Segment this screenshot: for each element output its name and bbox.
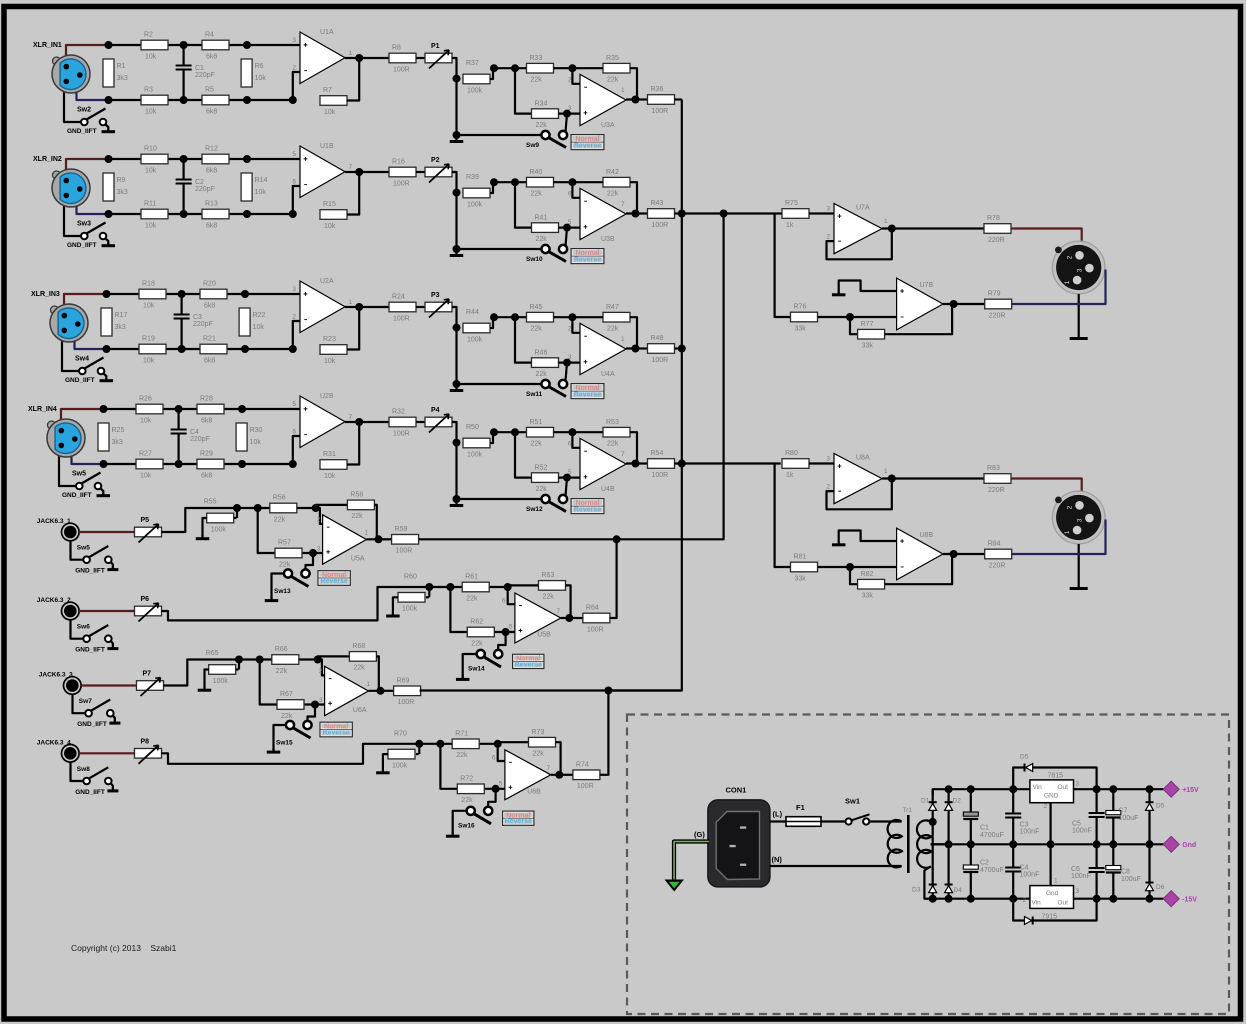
svg-text:1: 1 bbox=[1064, 530, 1071, 534]
svg-text:220pF: 220pF bbox=[190, 436, 210, 443]
svg-text:3k3: 3k3 bbox=[115, 324, 126, 331]
svg-text:6k8: 6k8 bbox=[201, 472, 212, 479]
svg-text:6: 6 bbox=[292, 429, 296, 436]
resistor R24 bbox=[389, 294, 416, 323]
svg-text:100R: 100R bbox=[393, 180, 410, 187]
svg-text:GND_IIFT: GND_IIFT bbox=[75, 568, 105, 575]
svg-text:R1: R1 bbox=[117, 63, 126, 70]
wire output to 100R bbox=[636, 347, 648, 349]
svg-text:(G): (G) bbox=[694, 830, 705, 839]
svg-text:R37: R37 bbox=[466, 60, 479, 67]
svg-text:220R: 220R bbox=[988, 487, 1005, 494]
wire to buffer +input bbox=[809, 212, 834, 214]
op-amp U8A bbox=[826, 454, 888, 504]
svg-text:U2A: U2A bbox=[320, 278, 334, 285]
op-amp U7A bbox=[826, 204, 888, 254]
resistor R18 bbox=[139, 281, 166, 310]
capacitor C7 bbox=[1106, 789, 1139, 844]
wire jack to pot bbox=[79, 752, 134, 754]
jack input connector JACK6.3_2 bbox=[37, 597, 79, 620]
svg-text:C1: C1 bbox=[195, 65, 204, 72]
wire +input node down to phase switch bbox=[306, 553, 314, 570]
resistor R47 bbox=[603, 304, 630, 333]
wire maroon from XLR pin to top rail bbox=[66, 159, 109, 171]
jack input connector JACK6.3_1 bbox=[37, 518, 79, 541]
svg-text:100k: 100k bbox=[211, 526, 227, 533]
wire divider down to switch line bbox=[455, 79, 457, 135]
wire maroon to XLR pin 2 bbox=[1012, 479, 1082, 493]
svg-text:5: 5 bbox=[568, 469, 572, 476]
svg-text:R39: R39 bbox=[466, 174, 479, 181]
svg-text:R11: R11 bbox=[144, 201, 156, 208]
svg-text:22k: 22k bbox=[531, 326, 543, 333]
svg-text:2: 2 bbox=[292, 65, 296, 72]
svg-text:1: 1 bbox=[884, 468, 888, 475]
node C junction top bbox=[178, 290, 186, 298]
svg-text:3k3: 3k3 bbox=[112, 439, 123, 446]
svg-text:Sw14: Sw14 bbox=[468, 666, 485, 673]
wire jack to pot bbox=[79, 610, 134, 612]
svg-text:U8B: U8B bbox=[920, 532, 934, 539]
svg-text:+15V: +15V bbox=[1182, 787, 1199, 794]
wire down to lower 22k bbox=[515, 68, 532, 113]
ground bbox=[1070, 544, 1088, 589]
svg-text:R2: R2 bbox=[144, 32, 153, 39]
svg-text:Sw15: Sw15 bbox=[276, 740, 293, 747]
wire buffer feedback bbox=[827, 479, 892, 510]
resistor R83 bbox=[984, 465, 1011, 494]
svg-text:U4B: U4B bbox=[601, 486, 615, 493]
ground bbox=[100, 378, 114, 381]
svg-text:22k: 22k bbox=[607, 326, 619, 333]
svg-text:R72: R72 bbox=[460, 776, 473, 783]
resistor R79 bbox=[985, 291, 1012, 320]
Normal/Reverse label box bbox=[571, 134, 605, 150]
resistor R74 bbox=[573, 762, 600, 791]
capacitor C6 bbox=[1071, 844, 1105, 898]
svg-text:1: 1 bbox=[366, 681, 370, 688]
node bus B top bbox=[720, 210, 728, 218]
transformer Tr1 bbox=[888, 807, 932, 873]
regulator U 7915 bbox=[1023, 878, 1080, 921]
svg-text:10k: 10k bbox=[324, 109, 336, 116]
svg-text:JACK6.3_3: JACK6.3_3 bbox=[39, 672, 73, 679]
op-amp U3A bbox=[568, 74, 626, 129]
svg-text:D5: D5 bbox=[1020, 754, 1029, 761]
node output bbox=[565, 614, 573, 622]
resistor R43 bbox=[648, 200, 675, 229]
Normal/Reverse label box bbox=[571, 383, 605, 399]
ground bbox=[832, 542, 846, 545]
wire node segment bbox=[494, 431, 527, 433]
svg-text:R7: R7 bbox=[323, 87, 332, 94]
wire jack sleeve to switch bbox=[71, 541, 84, 560]
wire to feedback 22k bbox=[316, 505, 348, 508]
svg-text:33k: 33k bbox=[795, 325, 807, 332]
wire inverter +input to ground bbox=[839, 281, 897, 293]
resistor R71 bbox=[452, 731, 479, 760]
node first stage output bbox=[355, 168, 363, 176]
wire lower 22k to +input bbox=[305, 703, 325, 705]
svg-text:R67: R67 bbox=[280, 691, 293, 698]
wire down to lower 22k bbox=[515, 317, 532, 362]
svg-text:GND_IIFT: GND_IIFT bbox=[62, 492, 92, 499]
svg-text:CON1: CON1 bbox=[726, 786, 747, 795]
svg-text:10k: 10k bbox=[140, 417, 152, 424]
wire top rail bbox=[109, 44, 301, 46]
jack input connector JACK6.3_4 bbox=[37, 739, 79, 762]
resistor R36 bbox=[648, 86, 675, 115]
svg-text:P8: P8 bbox=[141, 738, 150, 745]
wire 22k to -input jog bbox=[299, 660, 324, 676]
svg-text:R21: R21 bbox=[203, 336, 216, 343]
svg-text:R3: R3 bbox=[144, 87, 153, 94]
regulator U 7815 bbox=[1030, 773, 1080, 811]
svg-text:D1: D1 bbox=[921, 798, 930, 805]
op-amp U5A bbox=[317, 515, 369, 564]
svg-text:10k: 10k bbox=[145, 108, 157, 115]
resistor R58 bbox=[347, 492, 374, 521]
Normal/Reverse label box bbox=[317, 570, 351, 586]
svg-text:Reverse: Reverse bbox=[574, 392, 601, 399]
svg-text:JACK6.3_2: JACK6.3_2 bbox=[37, 597, 71, 604]
wire D6 protection loop bbox=[1013, 899, 1096, 921]
node jack2 join bbox=[613, 535, 621, 543]
svg-text:10k: 10k bbox=[145, 167, 157, 174]
svg-text:R29: R29 bbox=[200, 451, 213, 458]
svg-text:R8: R8 bbox=[392, 45, 401, 52]
svg-text:U3B: U3B bbox=[601, 236, 615, 243]
resistor R27 bbox=[136, 451, 163, 480]
wire 100k to line bbox=[234, 517, 237, 519]
wire branch down to lower 22k bbox=[440, 744, 457, 789]
wire feedback from output bbox=[347, 172, 359, 215]
svg-text:10k: 10k bbox=[324, 473, 336, 480]
resistor R30 bbox=[236, 423, 262, 451]
node divider bbox=[453, 189, 461, 197]
svg-text:Tr1: Tr1 bbox=[903, 807, 913, 814]
svg-text:GND: GND bbox=[1044, 793, 1059, 800]
capacitor C4 bbox=[1005, 844, 1039, 898]
wire transformer bottom to N bbox=[770, 865, 902, 867]
node second stage output bbox=[632, 96, 640, 104]
resistor R59 bbox=[392, 526, 419, 555]
svg-text:22k: 22k bbox=[276, 668, 288, 675]
svg-text:6: 6 bbox=[568, 441, 572, 448]
svg-text:22k: 22k bbox=[607, 77, 619, 84]
wire -input node bbox=[818, 316, 897, 318]
svg-text:R24: R24 bbox=[392, 294, 405, 301]
svg-text:10k: 10k bbox=[324, 223, 336, 230]
potentiometer P6 bbox=[135, 596, 162, 622]
svg-text:3: 3 bbox=[317, 546, 321, 553]
svg-text:R57: R57 bbox=[278, 540, 291, 547]
svg-text:R13: R13 bbox=[205, 201, 218, 208]
capacitor C1 bbox=[963, 789, 1003, 844]
svg-text:1: 1 bbox=[621, 336, 625, 343]
wire node down to feedback 33k bbox=[850, 567, 858, 584]
resistor R51 bbox=[527, 419, 554, 448]
svg-text:R53: R53 bbox=[606, 419, 619, 426]
svg-text:22k: 22k bbox=[531, 77, 543, 84]
resistor R13 bbox=[202, 201, 229, 230]
wire +input node down to phase switch bbox=[498, 632, 505, 650]
wire +input node to phase switch bbox=[566, 478, 568, 496]
Normal/Reverse label box bbox=[502, 811, 535, 826]
svg-text:Sw12: Sw12 bbox=[526, 506, 543, 513]
svg-text:R58: R58 bbox=[350, 492, 363, 499]
wire protection diode column bbox=[1148, 789, 1150, 844]
op-amp U3B bbox=[568, 188, 626, 243]
wire jack to pot bbox=[81, 684, 136, 686]
svg-text:U5B: U5B bbox=[537, 632, 551, 639]
svg-text:22k: 22k bbox=[353, 665, 365, 672]
node second stage output bbox=[632, 210, 640, 218]
capacitor C5 bbox=[1072, 789, 1105, 844]
wire inverter +input to ground bbox=[839, 531, 897, 543]
ground bbox=[107, 787, 118, 791]
svg-text:1k: 1k bbox=[786, 472, 794, 479]
node C junction top bbox=[180, 41, 188, 49]
resistor R3 bbox=[141, 87, 168, 116]
ground bbox=[450, 499, 464, 506]
XLR input connector XLR_IN4 bbox=[28, 406, 85, 457]
wire output to series resistor bbox=[954, 303, 985, 305]
resistor R31 bbox=[320, 451, 347, 480]
Normal/Reverse label box bbox=[319, 722, 353, 738]
svg-text:220R: 220R bbox=[989, 312, 1006, 319]
node inverter output bbox=[950, 550, 958, 558]
svg-text:R36: R36 bbox=[651, 86, 664, 93]
switch Sw11 bbox=[526, 380, 567, 398]
svg-text:100k: 100k bbox=[213, 678, 229, 685]
wire divider down to switch line bbox=[455, 328, 457, 384]
svg-text:220pF: 220pF bbox=[193, 321, 213, 328]
wire channel output to bus bbox=[675, 98, 682, 100]
wire D5 protection loop bbox=[1013, 768, 1096, 790]
resistor R8 bbox=[389, 45, 416, 74]
wire to buffer +input bbox=[809, 462, 834, 464]
wire positive output rail bbox=[1074, 788, 1165, 790]
svg-text:R20: R20 bbox=[203, 281, 216, 288]
wire R100k up to summing node bbox=[490, 432, 493, 443]
node bus A ch4 bbox=[678, 460, 686, 468]
svg-text:Sw6: Sw6 bbox=[77, 624, 90, 631]
wire output to 100R bbox=[636, 98, 648, 100]
switch Sw1 bbox=[845, 797, 870, 825]
node C junction top bbox=[175, 405, 183, 413]
svg-text:R17: R17 bbox=[115, 312, 128, 319]
resistor R84 bbox=[985, 541, 1012, 570]
wire bus A vertical bbox=[608, 100, 681, 691]
resistor R17 bbox=[101, 308, 127, 336]
resistor R11 bbox=[141, 201, 168, 230]
wire output to R gain bbox=[345, 57, 359, 59]
svg-text:Reverse: Reverse bbox=[321, 578, 348, 585]
node output bbox=[377, 687, 385, 695]
fuse F1 bbox=[786, 803, 821, 826]
node secondary top bbox=[929, 818, 937, 826]
svg-text:2: 2 bbox=[568, 77, 572, 84]
resistor R81 bbox=[791, 554, 818, 583]
svg-text:R82: R82 bbox=[861, 571, 874, 578]
wire down to lower 22k bbox=[515, 432, 532, 477]
svg-text:D5: D5 bbox=[1156, 803, 1165, 810]
svg-text:6k8: 6k8 bbox=[206, 108, 217, 115]
svg-text:U7A: U7A bbox=[856, 205, 870, 212]
node jack4 join bbox=[604, 687, 612, 695]
svg-text:6: 6 bbox=[568, 191, 572, 198]
capacitor C2 bbox=[176, 159, 215, 214]
resistor R57 bbox=[275, 540, 302, 569]
svg-text:F1: F1 bbox=[796, 803, 805, 812]
svg-text:P1: P1 bbox=[431, 43, 440, 50]
wire XLR shell to ground-lift switch bbox=[64, 205, 81, 236]
capacitor C8 bbox=[1106, 844, 1141, 898]
svg-text:U5A: U5A bbox=[351, 556, 365, 563]
node rails col2 col3 bbox=[945, 785, 953, 793]
svg-text:220pF: 220pF bbox=[195, 72, 215, 79]
svg-text:3: 3 bbox=[826, 456, 830, 463]
svg-text:R80: R80 bbox=[785, 450, 798, 457]
svg-text:(L): (L) bbox=[773, 810, 783, 819]
wire feedback from output bbox=[347, 422, 359, 465]
wire 22k to -input jog bbox=[480, 744, 505, 761]
wire navy to XLR pin 3 bbox=[1011, 270, 1106, 305]
svg-text:U1B: U1B bbox=[320, 143, 334, 150]
svg-text:XLR_IN1: XLR_IN1 bbox=[33, 42, 62, 49]
svg-text:2: 2 bbox=[568, 326, 572, 333]
earth symbol bbox=[665, 880, 685, 892]
svg-text:22k: 22k bbox=[531, 191, 543, 198]
wire output to series resistor bbox=[882, 227, 984, 229]
op-amp U1A bbox=[292, 29, 352, 84]
wire -input node bbox=[818, 566, 897, 568]
resistor R25 bbox=[98, 423, 124, 451]
svg-text:3: 3 bbox=[1076, 518, 1083, 522]
wire output to R gain bbox=[345, 306, 359, 308]
svg-text:100R: 100R bbox=[652, 108, 669, 115]
svg-text:R27: R27 bbox=[139, 451, 152, 458]
diode D1 bbox=[921, 798, 937, 811]
svg-text:C5: C5 bbox=[1072, 821, 1081, 828]
svg-text:100k: 100k bbox=[467, 336, 483, 343]
resistor R60 bbox=[398, 574, 425, 613]
svg-text:6k8: 6k8 bbox=[201, 417, 212, 424]
svg-text:C6: C6 bbox=[1071, 866, 1080, 873]
wire 22k to -input jog bbox=[554, 182, 581, 198]
resistor R35 bbox=[603, 55, 630, 84]
wire feedback 22k to output bbox=[626, 68, 637, 99]
ground bbox=[97, 493, 111, 496]
svg-text:22k: 22k bbox=[279, 561, 291, 568]
svg-text:3k3: 3k3 bbox=[117, 75, 128, 82]
wire 7815 ground pin bbox=[1049, 803, 1051, 845]
wire secondary center tap bbox=[931, 843, 949, 845]
svg-text:R68: R68 bbox=[352, 643, 365, 650]
svg-text:2: 2 bbox=[1067, 505, 1074, 509]
wire pot to divider node bbox=[452, 307, 457, 328]
svg-text:3: 3 bbox=[292, 37, 296, 44]
wire XLR shell to ground-lift switch bbox=[59, 455, 76, 486]
svg-text:C4: C4 bbox=[190, 429, 199, 436]
diode D6 bbox=[1146, 883, 1165, 892]
svg-text:100k: 100k bbox=[467, 87, 483, 94]
wire feedback to output bbox=[561, 585, 571, 618]
svg-text:R15: R15 bbox=[323, 201, 336, 208]
svg-text:10k: 10k bbox=[253, 324, 265, 331]
svg-text:1k: 1k bbox=[786, 222, 794, 229]
svg-text:R41: R41 bbox=[535, 214, 548, 221]
wire fuse to switch bbox=[821, 820, 846, 822]
node output bbox=[375, 535, 383, 543]
svg-text:Reverse: Reverse bbox=[515, 661, 542, 668]
switch Sw12 bbox=[526, 495, 567, 513]
svg-text:Sw11: Sw11 bbox=[526, 391, 543, 398]
wire maroon from XLR pin to top rail bbox=[64, 294, 107, 306]
wire jack4 output branch bbox=[600, 691, 609, 775]
resistor R21 bbox=[200, 336, 227, 365]
node divider bbox=[453, 75, 461, 83]
svg-text:1: 1 bbox=[621, 87, 625, 94]
svg-text:R30: R30 bbox=[250, 427, 263, 434]
svg-text:Out: Out bbox=[1058, 900, 1069, 907]
svg-text:P4: P4 bbox=[431, 407, 440, 414]
resistor R45 bbox=[527, 304, 554, 333]
switch Sw5 bbox=[77, 545, 112, 564]
resistor R63 bbox=[539, 572, 566, 601]
XLR input connector XLR_IN1 bbox=[33, 42, 90, 93]
resistor R54 bbox=[648, 450, 675, 479]
wire positive raw rail bbox=[933, 789, 1030, 795]
capacitor C3 bbox=[174, 294, 213, 349]
svg-text:22k: 22k bbox=[536, 122, 548, 129]
svg-text:JACK6.3_1: JACK6.3_1 bbox=[37, 518, 71, 525]
svg-text:C2: C2 bbox=[980, 860, 989, 867]
svg-text:R55: R55 bbox=[204, 499, 217, 506]
svg-text:100k: 100k bbox=[467, 201, 483, 208]
svg-text:5: 5 bbox=[509, 624, 513, 631]
svg-text:3: 3 bbox=[826, 206, 830, 213]
svg-text:2: 2 bbox=[292, 314, 296, 321]
svg-text:C2: C2 bbox=[195, 179, 204, 186]
diode D5 bbox=[1020, 754, 1033, 772]
capacitor C1 bbox=[176, 45, 215, 100]
wire bottom rail bbox=[109, 99, 293, 101]
wire feedback 22k to output bbox=[626, 432, 637, 463]
ground bbox=[198, 687, 212, 691]
node buffer output bbox=[888, 225, 896, 233]
wire 22k to -input jog bbox=[297, 508, 322, 524]
ground bbox=[107, 645, 118, 649]
svg-text:4700uF: 4700uF bbox=[980, 832, 1004, 839]
ground bbox=[450, 135, 464, 142]
resistor R40 bbox=[527, 169, 554, 198]
resistor R5 bbox=[202, 87, 229, 116]
wire bus B vertical bbox=[618, 214, 724, 540]
node inverter output bbox=[950, 300, 958, 308]
XLR output connector bbox=[1052, 241, 1105, 294]
wire top rail bbox=[107, 293, 301, 295]
wire node to feedback 22k bbox=[572, 181, 603, 183]
switch Sw16 bbox=[458, 807, 492, 830]
svg-text:100R: 100R bbox=[652, 357, 669, 364]
wire lower 22k to +input bbox=[559, 227, 581, 229]
wire +input node to phase switch bbox=[566, 228, 568, 246]
resistor R2 bbox=[141, 32, 168, 61]
ground bbox=[386, 613, 400, 616]
resistor R37 bbox=[463, 60, 490, 94]
